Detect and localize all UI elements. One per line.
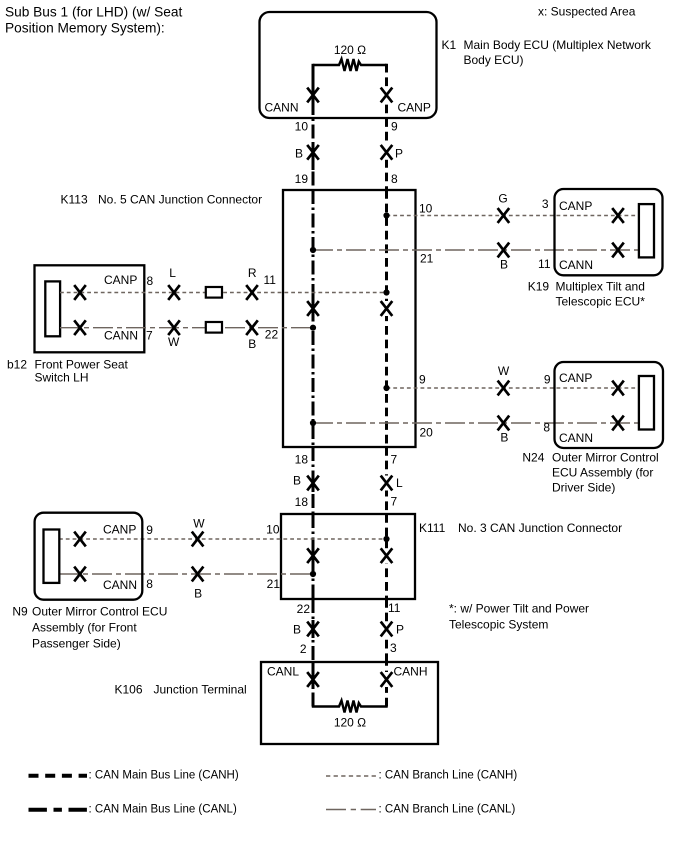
- node junction dot K113 CANL to N24: [310, 420, 316, 426]
- svg-text:10: 10: [266, 523, 280, 537]
- X suspect mark b12 CANP inside: [74, 285, 86, 300]
- wire CANH branch N9 to K111: [59, 538, 387, 540]
- svg-text:22: 22: [297, 602, 311, 616]
- svg-text:P: P: [396, 622, 404, 636]
- X suspect mark K1 CANP: [384, 88, 388, 103]
- node junction dot N9 CANP on CANH bus: [383, 536, 389, 542]
- X suspect mark branch W N9: [192, 532, 204, 547]
- svg-text:Position Memory System):: Position Memory System):: [5, 21, 165, 36]
- svg-text:10: 10: [419, 202, 433, 216]
- svg-text:8: 8: [391, 172, 398, 186]
- svg-text:9: 9: [146, 523, 153, 537]
- svg-text:2: 2: [300, 642, 307, 656]
- node junction dot K113 CANL to K19: [310, 247, 316, 253]
- node junction dot K113 CANH to K19: [383, 212, 389, 218]
- svg-text:W: W: [498, 364, 510, 378]
- wire CANL branch K113 pin21 to K19: [313, 249, 639, 251]
- resistor R-top zigzag: [313, 59, 387, 71]
- svg-text:W: W: [168, 335, 180, 349]
- X suspect mark bus P bottom: [384, 622, 388, 637]
- node junction dot b12 CANN on CANL bus: [310, 325, 316, 331]
- svg-text:22: 22: [265, 328, 279, 342]
- svg-text:Switch LH: Switch LH: [35, 371, 89, 385]
- X suspect mark K1 CANN: [307, 88, 319, 103]
- svg-text:B: B: [248, 337, 256, 351]
- svg-text:11: 11: [388, 601, 401, 615]
- X suspect mark bus P: [384, 145, 388, 160]
- ECU K19 box: [555, 189, 663, 275]
- node junction dot K113 CANH to N24: [383, 385, 389, 391]
- wire CANL solid inside K1: [312, 64, 315, 101]
- X suspect mark bus L mid: [384, 476, 388, 491]
- node junction dot b12 CANP on CANH bus: [383, 289, 389, 295]
- wire CANL solid run at suspect mark: [312, 144, 315, 171]
- wire CANH main bus K1 to K113: [385, 64, 388, 190]
- svg-text:*: w/ Power Tilt and Power: *: w/ Power Tilt and Power: [449, 602, 589, 616]
- X suspect mark inside N24 CANP: [612, 381, 624, 396]
- svg-text:20: 20: [420, 426, 434, 440]
- wire CANL main bus inside K113: [312, 190, 315, 447]
- svg-text:CANP: CANP: [398, 101, 431, 115]
- wire CANH branch b12 to K113: [60, 292, 387, 294]
- svg-text:10: 10: [295, 120, 309, 134]
- svg-text:21: 21: [267, 577, 281, 591]
- svg-text:9: 9: [391, 120, 398, 134]
- connector slot b12: [45, 281, 60, 336]
- svg-text:CANN: CANN: [559, 431, 593, 445]
- svg-text:19: 19: [295, 172, 309, 186]
- wire CANL main bus K1 to K113: [312, 101, 315, 190]
- svg-text:P: P: [395, 146, 403, 160]
- svg-text:11: 11: [264, 273, 277, 287]
- svg-text:: CAN Main Bus Line (CANH): : CAN Main Bus Line (CANH): [89, 770, 239, 782]
- wire CANH main bus K113 to K111: [385, 447, 388, 514]
- X suspect mark branch B b12: [246, 320, 258, 335]
- svg-text:9: 9: [544, 373, 551, 387]
- svg-text:: CAN Branch Line (CANH): : CAN Branch Line (CANH): [379, 770, 518, 782]
- X suspect mark branch B to K19: [498, 243, 510, 258]
- label K111 No. 3 CAN Junction Connector: [419, 521, 622, 535]
- X suspect mark bus B: [307, 145, 319, 160]
- svg-text:B: B: [293, 622, 301, 636]
- connector slot K19: [639, 204, 654, 257]
- resistor R-bottom zigzag: [313, 701, 387, 713]
- label K19 Multiplex Tilt and Telescopic ECU: [528, 280, 645, 309]
- svg-text:Outer Mirror Control ECU: Outer Mirror Control ECU: [32, 605, 167, 619]
- svg-text:Outer Mirror Control: Outer Mirror Control: [552, 451, 659, 465]
- label K106 Junction Terminal: [115, 683, 247, 697]
- title text Sub Bus 1: [5, 5, 182, 36]
- label K113 No. 5 CAN Junction Connector: [61, 193, 263, 207]
- svg-text:21: 21: [420, 252, 434, 266]
- svg-text:B: B: [500, 258, 508, 272]
- node junction dot N9 CANN on CANL bus: [310, 571, 316, 577]
- ECU U-K1 box: [260, 12, 437, 118]
- wire CANL solid run at B mid: [312, 474, 315, 492]
- X suspect mark K111 CANL: [307, 548, 319, 563]
- wire CANH main bus inside K111: [385, 514, 388, 599]
- svg-text:L: L: [396, 476, 403, 490]
- svg-text:K106: K106: [115, 683, 143, 697]
- wire CANH branch K113 pin9 to N24: [387, 387, 640, 389]
- label N24 Outer Mirror Control ECU Assembly: [522, 451, 658, 495]
- svg-text:CANL: CANL: [267, 665, 299, 679]
- wire CANH inside K106: [385, 662, 388, 707]
- svg-text:18: 18: [295, 495, 309, 509]
- svg-text:Sub Bus 1 (for LHD) (w/ Seat: Sub Bus 1 (for LHD) (w/ Seat: [5, 5, 182, 20]
- svg-text:B: B: [194, 587, 202, 601]
- svg-text:Multiplex Tilt and: Multiplex Tilt and: [556, 280, 645, 294]
- X suspect mark K106 CANL: [307, 672, 319, 687]
- note asterisk Power Tilt: [449, 602, 589, 632]
- svg-text:B: B: [295, 146, 303, 160]
- svg-text:No. 5 CAN Junction Connector: No. 5 CAN Junction Connector: [98, 193, 262, 207]
- inline connector top b12-K113: [206, 287, 222, 298]
- svg-text:CANN: CANN: [559, 258, 593, 272]
- svg-text:K19: K19: [528, 280, 550, 294]
- X suspect mark K106 CANH: [384, 672, 388, 687]
- svg-text:7: 7: [391, 453, 398, 467]
- svg-text:Main Body ECU (Multiplex Netwo: Main Body ECU (Multiplex Network: [464, 38, 652, 52]
- wire CANL main bus K113 to K111: [312, 447, 315, 514]
- wire CANL branch K113 pin20 to N24: [313, 422, 639, 424]
- svg-text:G: G: [498, 192, 507, 206]
- svg-text:b12: b12: [7, 358, 27, 372]
- svg-text:N9: N9: [12, 605, 28, 619]
- X suspect mark N9 CANN inside: [74, 567, 86, 582]
- connector slot N24: [639, 376, 654, 430]
- svg-text:CANP: CANP: [104, 273, 137, 287]
- svg-text:K1: K1: [442, 38, 457, 52]
- svg-text:Body ECU): Body ECU): [464, 53, 524, 67]
- X suspect mark K111 CANH: [384, 548, 388, 563]
- svg-text:7: 7: [391, 495, 398, 509]
- svg-text:R: R: [248, 266, 257, 280]
- wire CANL branch b12 to K113: [60, 327, 313, 329]
- ECU N24 box: [555, 362, 664, 448]
- X suspect mark inside K19 CANP: [612, 208, 624, 223]
- wire CANL branch N9 to K111: [59, 573, 313, 575]
- wire CANL solid run inside K113: [312, 293, 315, 321]
- svg-text:8: 8: [543, 421, 550, 435]
- svg-text:120 Ω: 120 Ω: [334, 716, 366, 730]
- wire CANH main bus inside K113: [385, 190, 388, 447]
- wire CANL main bus inside K111: [312, 514, 315, 599]
- svg-text:Driver Side): Driver Side): [552, 481, 615, 495]
- X suspect mark branch B to N24: [498, 416, 510, 431]
- wire CANH branch K113 pin10 to K19: [387, 215, 640, 217]
- svg-text:CANP: CANP: [559, 371, 592, 385]
- svg-text:L: L: [169, 266, 176, 280]
- svg-text:B: B: [293, 474, 301, 488]
- svg-text:: CAN Branch Line (CANL): : CAN Branch Line (CANL): [379, 804, 516, 816]
- svg-text:Passenger Side): Passenger Side): [32, 637, 121, 651]
- svg-text:: CAN Main Bus Line (CANL): : CAN Main Bus Line (CANL): [89, 804, 237, 816]
- X suspect mark K113 CANL: [307, 301, 319, 316]
- wire CANL solid run at B bottom: [312, 620, 315, 638]
- X suspect mark N9 CANP inside: [74, 532, 86, 547]
- connector K111 box: [281, 514, 415, 599]
- svg-text:Telescopic System: Telescopic System: [449, 618, 548, 632]
- svg-text:8: 8: [147, 274, 154, 288]
- X suspect mark branch L: [168, 285, 180, 300]
- svg-text:W: W: [193, 517, 205, 531]
- svg-text:N24: N24: [522, 451, 544, 465]
- svg-text:CANN: CANN: [104, 329, 138, 343]
- connector K113 box: [283, 190, 416, 447]
- X suspect mark inside K19 CANN: [612, 243, 624, 258]
- svg-text:CANP: CANP: [559, 199, 592, 213]
- X suspect mark branch G: [498, 208, 510, 223]
- X suspect mark inside N24 CANN: [612, 416, 624, 431]
- label N9 Outer Mirror Control ECU Assembly: [12, 605, 167, 651]
- svg-text:8: 8: [146, 577, 153, 591]
- svg-text:CANN: CANN: [265, 101, 299, 115]
- svg-text:x: Suspected Area: x: Suspected Area: [538, 5, 636, 19]
- legend sample CAN Branch CANH: [326, 775, 377, 777]
- wire CANH main bus K111 to K106: [385, 599, 388, 662]
- svg-text:9: 9: [419, 373, 426, 387]
- legend sample CAN Branch CANL: [326, 809, 376, 811]
- svg-text:7: 7: [146, 329, 153, 343]
- svg-text:No. 3 CAN Junction Connector: No. 3 CAN Junction Connector: [458, 521, 622, 535]
- svg-text:CANN: CANN: [103, 578, 137, 592]
- X suspect mark branch W to N24: [498, 381, 510, 396]
- X suspect mark branch R: [246, 285, 258, 300]
- X suspect mark b12 CANN inside: [74, 320, 86, 335]
- legend sample CAN Main Bus CANL: [29, 808, 88, 812]
- X suspect mark branch W: [168, 320, 180, 335]
- svg-text:18: 18: [295, 453, 309, 467]
- svg-text:K113: K113: [61, 193, 88, 207]
- wire CANL inside K106: [312, 662, 315, 707]
- svg-text:K111: K111: [419, 521, 446, 535]
- svg-text:CANP: CANP: [103, 523, 136, 537]
- svg-text:3: 3: [390, 641, 397, 655]
- ECU N9 box: [35, 513, 143, 600]
- label K1 Main Body ECU: [442, 38, 652, 67]
- wire CANL main bus K111 to K106: [312, 599, 315, 662]
- svg-text:Telescopic ECU*: Telescopic ECU*: [556, 295, 646, 309]
- svg-text:Assembly (for Front: Assembly (for Front: [32, 621, 137, 635]
- X suspect mark K113 CANH: [384, 301, 388, 316]
- svg-text:B: B: [500, 431, 508, 445]
- inline connector bottom b12-K113: [206, 322, 222, 333]
- svg-text:Junction Terminal: Junction Terminal: [154, 683, 247, 697]
- svg-text:11: 11: [538, 257, 551, 271]
- wire CANL solid run inside K111: [312, 547, 315, 565]
- svg-text:ECU Assembly (for: ECU Assembly (for: [552, 466, 653, 480]
- X suspect mark branch B N9: [192, 567, 204, 582]
- terminal K106 box: [261, 662, 438, 744]
- svg-text:Front Power Seat: Front Power Seat: [35, 358, 129, 372]
- connector b12 box: [35, 265, 145, 352]
- svg-text:120 Ω: 120 Ω: [334, 43, 366, 57]
- X suspect mark bus B mid: [307, 476, 319, 491]
- X suspect mark bus B bottom: [307, 622, 319, 637]
- svg-text:3: 3: [542, 197, 549, 211]
- label b12 Front Power Seat Switch LH: [7, 358, 129, 385]
- legend sample CAN Main Bus CANH: [29, 774, 88, 778]
- svg-text:CANH: CANH: [394, 665, 428, 679]
- connector slot N9: [44, 530, 60, 583]
